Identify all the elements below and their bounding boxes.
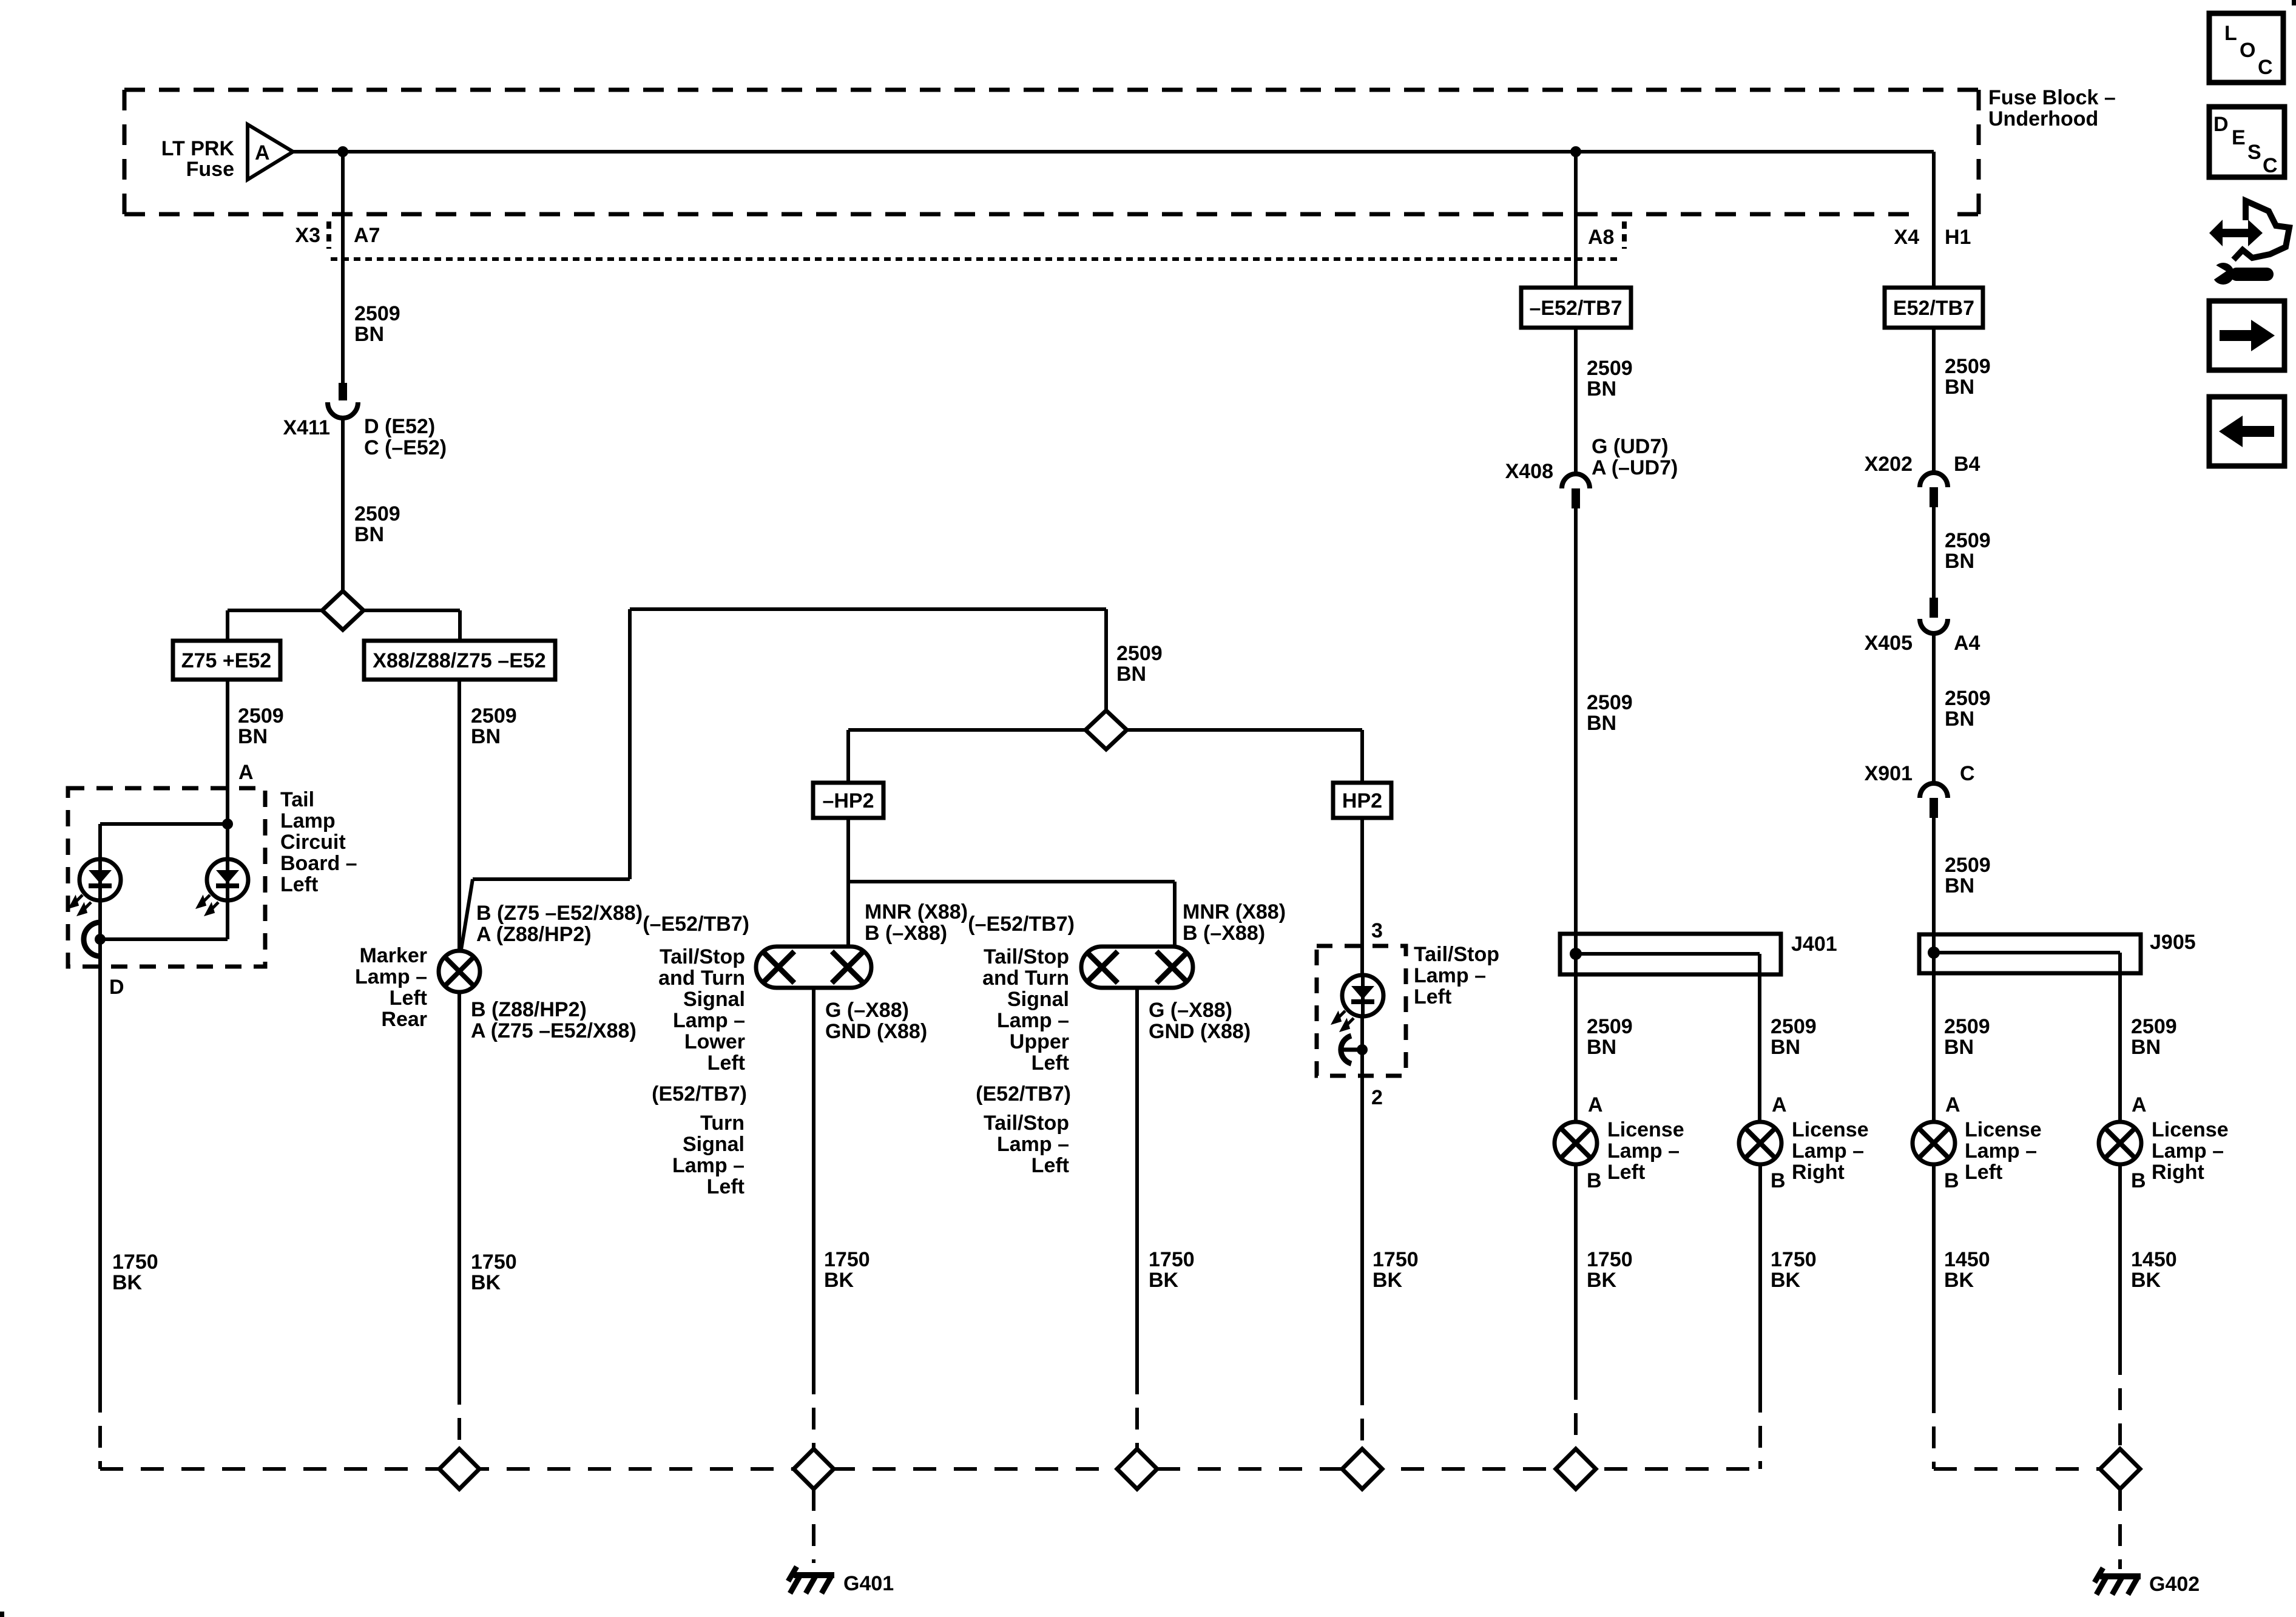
- svg-text:Signal: Signal: [683, 1133, 745, 1156]
- svg-text:Signal: Signal: [1007, 988, 1069, 1011]
- svg-text:License: License: [1607, 1118, 1684, 1141]
- marker lamp left rear (bulb): [439, 951, 480, 992]
- svg-text:(–E52/TB7): (–E52/TB7): [968, 913, 1075, 936]
- svg-text:2509: 2509: [1587, 1015, 1633, 1038]
- svg-text:HP2: HP2: [1342, 789, 1382, 812]
- svg-text:E: E: [2232, 126, 2246, 149]
- wires: license lamps J905 down: [1932, 1164, 1936, 1391]
- svg-text:2509: 2509: [1945, 854, 1991, 877]
- svg-text:BN: BN: [1945, 707, 1974, 731]
- wire: X411 to splice diamond: [341, 417, 345, 592]
- svg-text:A: A: [1588, 1093, 1603, 1116]
- svg-text:G (–X88): G (–X88): [1149, 999, 1232, 1022]
- wire down to splice S2: [1104, 609, 1108, 711]
- svg-text:A (Z75 –E52/X88): A (Z75 –E52/X88): [471, 1019, 636, 1042]
- svg-text:2509: 2509: [2131, 1015, 2177, 1038]
- svg-text:3: 3: [1371, 919, 1383, 942]
- wire: oval1 to ground bus: [812, 988, 815, 1372]
- connector boundary dotted line: [331, 257, 1622, 261]
- svg-text:Left: Left: [1032, 1154, 1069, 1177]
- svg-text:2: 2: [1371, 1086, 1383, 1109]
- svg-text:Lamp –: Lamp –: [1607, 1139, 1680, 1163]
- svg-text:A: A: [238, 761, 254, 784]
- svg-text:Underhood: Underhood: [1988, 107, 2098, 130]
- legend forward arrow box: [2209, 301, 2284, 370]
- ground drop to G401: [812, 1489, 815, 1563]
- svg-text:J401: J401: [1791, 933, 1837, 956]
- svg-text:B (–X88): B (–X88): [865, 922, 947, 945]
- junction node at X3 branch: [337, 146, 348, 157]
- svg-text:X405: X405: [1865, 632, 1913, 655]
- svg-text:Upper: Upper: [1010, 1030, 1069, 1053]
- svg-text:B (Z88/HP2): B (Z88/HP2): [471, 998, 587, 1021]
- svg-text:A: A: [1772, 1093, 1787, 1116]
- svg-text:B: B: [1944, 1169, 1959, 1192]
- svg-text:Left: Left: [390, 987, 427, 1010]
- svg-text:L: L: [2224, 22, 2237, 45]
- board internal hook symbol: [84, 922, 101, 956]
- legend DESC box: [2209, 107, 2284, 177]
- svg-text:BN: BN: [354, 523, 384, 546]
- svg-text:1750: 1750: [471, 1251, 517, 1274]
- svg-text:GND (X88): GND (X88): [825, 1020, 927, 1043]
- svg-text:BN: BN: [2131, 1036, 2161, 1059]
- legend LOC box: [2209, 13, 2283, 83]
- svg-text:H1: H1: [1945, 226, 1971, 249]
- svg-text:1750: 1750: [1771, 1248, 1817, 1271]
- svg-text:BN: BN: [1945, 376, 1974, 399]
- svg-text:BN: BN: [1116, 663, 1146, 686]
- svg-text:C: C: [1960, 762, 1975, 785]
- wire to LED 1: [100, 822, 228, 826]
- LED tail/stop lamp: [1342, 975, 1383, 1016]
- svg-text:Tail/Stop: Tail/Stop: [1414, 943, 1499, 966]
- LED lamp (left) in circuit board: [79, 859, 121, 900]
- svg-text:A: A: [255, 141, 270, 164]
- wire: HP2 down to tail/stop lamp left: [1360, 818, 1364, 976]
- wire: S2 to -HP2: [848, 728, 1086, 732]
- svg-text:BK: BK: [471, 1271, 501, 1294]
- tail/stop lamp left dashed box: [1317, 946, 1406, 1076]
- svg-text:B4: B4: [1954, 453, 1980, 476]
- svg-text:BN: BN: [354, 323, 384, 346]
- ground bus dashed (G401): [100, 1467, 1760, 1471]
- svg-text:Turn: Turn: [700, 1112, 745, 1135]
- wire: feed loop up to splice S2 level: [630, 607, 1106, 611]
- svg-text:–E52/TB7: –E52/TB7: [1529, 297, 1622, 320]
- svg-text:Lamp –: Lamp –: [1414, 964, 1486, 987]
- svg-text:BN: BN: [471, 725, 501, 748]
- svg-text:BN: BN: [1587, 377, 1616, 400]
- svg-text:Tail/Stop: Tail/Stop: [984, 1112, 1069, 1135]
- svg-text:Circuit: Circuit: [280, 831, 346, 854]
- svg-text:Right: Right: [2152, 1161, 2204, 1184]
- svg-text:MNR (X88): MNR (X88): [1183, 900, 1286, 923]
- wire into board: [226, 788, 229, 859]
- junction node + hook: [1357, 1044, 1368, 1055]
- svg-text:BN: BN: [1944, 1036, 1974, 1059]
- svg-text:2509: 2509: [238, 704, 284, 727]
- svg-text:2509: 2509: [1587, 357, 1633, 380]
- svg-text:Tail: Tail: [280, 788, 314, 811]
- svg-text:A4: A4: [1954, 632, 1980, 655]
- svg-text:1750: 1750: [112, 1251, 158, 1274]
- svg-text:2509: 2509: [1944, 1015, 1990, 1038]
- svg-text:BN: BN: [1945, 874, 1974, 897]
- svg-text:License: License: [1965, 1118, 2042, 1141]
- svg-text:X901: X901: [1865, 762, 1913, 785]
- svg-text:X202: X202: [1865, 453, 1913, 476]
- svg-text:Lamp –: Lamp –: [2152, 1139, 2224, 1163]
- svg-text:D: D: [109, 976, 124, 999]
- splice diamond S2: [1086, 711, 1127, 749]
- svg-text:BK: BK: [2131, 1269, 2161, 1292]
- circuit box -HP2: [813, 783, 883, 818]
- wires joining LEDs to common: [98, 900, 102, 939]
- svg-text:2509: 2509: [1945, 687, 1991, 710]
- svg-text:(E52/TB7): (E52/TB7): [976, 1082, 1071, 1106]
- ground splice diamond: [1556, 1449, 1596, 1489]
- svg-text:A7: A7: [354, 224, 380, 247]
- circuit box -E52/TB7: [1521, 288, 1631, 328]
- ground splice diamond: [439, 1449, 479, 1489]
- svg-text:2509: 2509: [1945, 529, 1991, 552]
- svg-text:BN: BN: [238, 725, 268, 748]
- circuit box HP2: [1333, 783, 1391, 818]
- svg-text:A (Z88/HP2): A (Z88/HP2): [476, 923, 592, 946]
- svg-text:Lower: Lower: [684, 1030, 745, 1053]
- svg-text:Left: Left: [1414, 985, 1451, 1008]
- wire through to pin 2: [1360, 1016, 1364, 1383]
- legend wrench/routing icon: [2209, 201, 2289, 285]
- junction node: [222, 819, 233, 829]
- svg-text:G401: G401: [843, 1572, 894, 1595]
- svg-text:Lamp –: Lamp –: [997, 1133, 1069, 1156]
- page corner mark top right: [2292, 0, 2296, 5]
- wire: Z75 box down to tail lamp board: [226, 680, 229, 788]
- svg-text:1750: 1750: [1149, 1248, 1195, 1271]
- svg-text:E52/TB7: E52/TB7: [1893, 297, 1974, 320]
- svg-text:Tail/Stop: Tail/Stop: [984, 945, 1069, 968]
- svg-text:2509: 2509: [1945, 355, 1991, 378]
- wire: S2 to HP2: [1127, 728, 1362, 732]
- svg-text:Lamp –: Lamp –: [355, 965, 427, 988]
- svg-text:B (–X88): B (–X88): [1183, 922, 1265, 945]
- svg-text:G402: G402: [2149, 1573, 2200, 1596]
- splice diamond S1: [322, 591, 363, 630]
- svg-text:B: B: [1587, 1169, 1602, 1192]
- ground G401: [794, 1572, 834, 1578]
- tail/stop and turn signal lamp - upper left (oval): [1081, 947, 1193, 988]
- LED lamp (right) in circuit board: [207, 859, 248, 900]
- svg-text:B: B: [1771, 1169, 1786, 1192]
- wire: diamond to X88 box: [363, 609, 460, 612]
- svg-text:D: D: [2213, 113, 2229, 136]
- svg-text:1750: 1750: [824, 1248, 870, 1271]
- wire: X3/A7 down to X411: [341, 152, 345, 383]
- tail/stop and turn signal lamp - lower left (oval): [756, 947, 871, 988]
- svg-text:A: A: [1945, 1093, 1960, 1116]
- svg-text:B (Z75 –E52/X88): B (Z75 –E52/X88): [476, 902, 643, 925]
- svg-text:X3: X3: [295, 224, 320, 247]
- svg-text:1450: 1450: [1944, 1248, 1990, 1271]
- connector separator X3/A7: [326, 221, 331, 249]
- svg-text:X4: X4: [1894, 226, 1919, 249]
- svg-text:BN: BN: [1945, 550, 1974, 573]
- wire: MNR link to oval 2: [848, 880, 1175, 883]
- svg-text:Z75 +E52: Z75 +E52: [181, 649, 271, 672]
- svg-text:G (–X88): G (–X88): [825, 999, 909, 1022]
- svg-text:License: License: [1792, 1118, 1869, 1141]
- svg-text:BK: BK: [1771, 1269, 1801, 1292]
- svg-text:BK: BK: [824, 1269, 854, 1292]
- inline connector X408: [1562, 474, 1590, 488]
- svg-text:LT PRK: LT PRK: [161, 137, 235, 160]
- svg-text:Left: Left: [707, 1175, 745, 1198]
- svg-text:BK: BK: [1944, 1269, 1974, 1292]
- svg-text:C: C: [2258, 56, 2273, 79]
- svg-text:Lamp: Lamp: [280, 809, 336, 832]
- svg-text:D (E52): D (E52): [364, 415, 435, 438]
- wire: main feed from fuse: [293, 150, 1934, 154]
- junction node at A8 branch: [1570, 146, 1581, 157]
- svg-text:C (–E52): C (–E52): [364, 436, 447, 459]
- circuit box Z75 +E52: [173, 641, 280, 680]
- svg-text:BK: BK: [1587, 1269, 1617, 1292]
- wire: board pin D to ground bus: [98, 939, 102, 1391]
- wire: X88 box down to marker lamp: [458, 680, 461, 952]
- svg-text:X88/Z88/Z75 –E52: X88/Z88/Z75 –E52: [373, 649, 545, 672]
- inline connector X411: [339, 383, 347, 400]
- ground splice diamond: [1342, 1449, 1382, 1489]
- svg-text:Right: Right: [1792, 1161, 1845, 1184]
- svg-text:C: C: [2263, 154, 2278, 177]
- junction node common: [95, 934, 106, 945]
- ground splice diamond G402: [2100, 1449, 2140, 1489]
- wire: oval2 to ground bus: [1135, 988, 1139, 1372]
- svg-text:A: A: [2132, 1093, 2147, 1116]
- splice pack J401: [1560, 934, 1781, 974]
- svg-text:2509: 2509: [1771, 1015, 1817, 1038]
- svg-text:G (UD7): G (UD7): [1592, 435, 1669, 458]
- svg-text:Lamp –: Lamp –: [1792, 1139, 1864, 1163]
- ground G402: [2100, 1573, 2141, 1579]
- connector separator A8: [1622, 221, 1627, 249]
- svg-text:Rear: Rear: [381, 1008, 427, 1031]
- wire: diamond to Z75 box: [228, 609, 322, 612]
- inline connector X405: [1930, 598, 1938, 618]
- svg-text:Left: Left: [280, 873, 318, 896]
- svg-text:B: B: [2131, 1169, 2146, 1192]
- legend back arrow box: [2209, 397, 2284, 466]
- svg-text:Fuse: Fuse: [186, 158, 234, 181]
- svg-text:2509: 2509: [354, 302, 400, 325]
- svg-text:X408: X408: [1505, 460, 1553, 483]
- svg-text:Left: Left: [1965, 1161, 2002, 1184]
- svg-text:and Turn: and Turn: [658, 967, 745, 990]
- svg-text:Fuse Block –: Fuse Block –: [1988, 86, 2116, 109]
- svg-text:2509: 2509: [1587, 691, 1633, 714]
- svg-text:BK: BK: [1149, 1269, 1179, 1292]
- svg-text:J905: J905: [2150, 931, 2196, 954]
- wire: A8 down: [1574, 152, 1578, 288]
- svg-text:1750: 1750: [1373, 1248, 1419, 1271]
- svg-text:S: S: [2247, 141, 2261, 164]
- ground bus dashed (G402): [1932, 1391, 1936, 1469]
- svg-text:1450: 1450: [2131, 1248, 2177, 1271]
- svg-text:2509: 2509: [1116, 642, 1163, 665]
- svg-text:X411: X411: [283, 416, 330, 439]
- svg-text:BN: BN: [1587, 1036, 1616, 1059]
- wire: -HP2 down to lamp oval 1: [846, 818, 850, 948]
- circuit box X88/Z88/Z75 -E52: [364, 641, 555, 680]
- svg-text:Lamp –: Lamp –: [1965, 1139, 2037, 1163]
- tail lamp circuit board dashed box: [68, 788, 265, 967]
- svg-text:(E52/TB7): (E52/TB7): [652, 1082, 747, 1106]
- svg-text:O: O: [2240, 39, 2255, 62]
- inline connector X901: [1920, 783, 1948, 798]
- svg-text:2509: 2509: [471, 704, 517, 727]
- svg-text:Signal: Signal: [683, 988, 745, 1011]
- svg-text:1750: 1750: [1587, 1248, 1633, 1271]
- svg-text:Left: Left: [1607, 1161, 1645, 1184]
- circuit box E52/TB7: [1885, 288, 1983, 328]
- svg-text:Lamp –: Lamp –: [672, 1154, 745, 1177]
- wire: H1 down: [1932, 152, 1936, 288]
- svg-text:and Turn: and Turn: [982, 967, 1069, 990]
- fuse block underhood dashed box: [124, 88, 1979, 92]
- svg-text:–HP2: –HP2: [822, 789, 874, 812]
- svg-text:A8: A8: [1588, 226, 1614, 249]
- svg-text:(–E52/TB7): (–E52/TB7): [643, 913, 749, 936]
- wire: marker lamp to ground bus: [458, 992, 461, 1383]
- svg-text:BK: BK: [112, 1271, 143, 1294]
- svg-text:BN: BN: [1771, 1036, 1800, 1059]
- ground splice diamond: [1117, 1449, 1157, 1489]
- splice pack J905: [1919, 934, 2141, 973]
- svg-text:BN: BN: [1587, 712, 1616, 735]
- ground splice diamond: [794, 1449, 834, 1489]
- svg-text:MNR (X88): MNR (X88): [865, 900, 968, 923]
- svg-text:BK: BK: [1373, 1269, 1403, 1292]
- svg-text:License: License: [2152, 1118, 2229, 1141]
- svg-text:2509: 2509: [354, 502, 400, 525]
- svg-text:Left: Left: [707, 1052, 745, 1075]
- svg-text:Left: Left: [1032, 1052, 1069, 1075]
- fuse LT PRK (triangle with A): [248, 124, 293, 180]
- svg-text:Board –: Board –: [280, 852, 357, 875]
- svg-text:Marker: Marker: [359, 944, 427, 967]
- svg-text:Tail/Stop: Tail/Stop: [660, 945, 745, 968]
- svg-text:GND (X88): GND (X88): [1149, 1020, 1251, 1043]
- svg-text:A (–UD7): A (–UD7): [1592, 456, 1678, 479]
- svg-text:Lamp –: Lamp –: [997, 1009, 1069, 1032]
- page corner mark bottom left: [0, 1612, 4, 1617]
- wires: license lamps J401 to ground bus: [1574, 1164, 1578, 1378]
- inline connector X202: [1920, 473, 1948, 487]
- svg-text:Lamp –: Lamp –: [673, 1009, 745, 1032]
